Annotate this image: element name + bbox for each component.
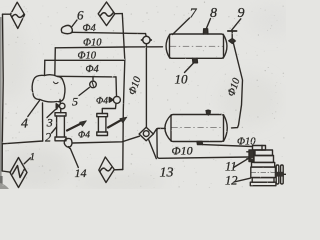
rotameter (bottom-middle diamond)	[99, 157, 115, 183]
wire: drop from phi4 line to valve	[115, 77, 118, 97]
label 7 leader	[173, 18, 190, 35]
svg-text:Φ10: Φ10	[172, 144, 193, 158]
cock 3 (triangle+circle on mixer outlet)	[56, 100, 65, 113]
component numbers	[21, 6, 245, 188]
label 14 leader	[70, 149, 78, 168]
wire: vertical to check valve 13	[145, 47, 147, 127]
valve (phi4 small cock, right group)	[109, 96, 120, 103]
wire: phi4 bus line 4	[58, 75, 117, 78]
flow arrow (right)	[108, 119, 123, 128]
label 3 leader	[47, 109, 57, 118]
wire: phi4 bus line 1	[72, 32, 146, 33]
svg-text:6: 6	[77, 8, 84, 23]
flow arrow (left)	[67, 123, 83, 131]
wire: valve 9 down to lower tank	[232, 44, 243, 128]
wire: top-middle diamond to right vertical	[115, 13, 123, 15]
svg-text:2: 2	[45, 131, 51, 145]
svg-text:13: 13	[160, 166, 174, 181]
label 6 leader	[72, 20, 77, 27]
check valve 13 (small diamond with circle)	[139, 127, 153, 141]
drain blob 14	[64, 138, 72, 147]
compressor 12 (block stack)	[250, 146, 276, 186]
wire: top-left diamond to left bus	[3, 13, 11, 15]
scan left edge strip	[0, 17, 2, 189]
wire: phi10 bus line 3	[45, 59, 125, 61]
wire: phi10 bus line 2 (to tank 7)	[55, 47, 162, 48]
receiver tank 7 (upper)	[166, 34, 227, 58]
label 11 leader	[234, 158, 250, 168]
wire: valve to burette 2'	[102, 103, 116, 113]
svg-text:Φ10: Φ10	[83, 37, 102, 48]
wire: bottom-middle diamond to right vertical	[114, 169, 123, 171]
bottom-left corner smudge	[0, 183, 9, 189]
nozzle 6 (small blob)	[61, 25, 72, 33]
label 4 leader	[28, 101, 40, 117]
svg-text:1: 1	[30, 152, 35, 163]
wire: lower middle line to check valve 13	[73, 136, 140, 143]
wire: drop from phi10 bus to mixer (right)	[54, 48, 57, 75]
burette 2 (left dropper cylinder)	[55, 113, 66, 141]
svg-text:4: 4	[21, 117, 28, 132]
label 9 leader	[232, 19, 241, 30]
paper background	[0, 0, 286, 189]
wire: left block bottom edge	[2, 141, 42, 144]
svg-text:Φ4: Φ4	[78, 131, 90, 141]
rotameter 1 (top-left diamond)	[10, 2, 24, 28]
receiver tank (lower)	[165, 115, 227, 142]
svg-text:7: 7	[190, 7, 198, 22]
gauge 5 (circle under line 4)	[90, 77, 97, 88]
flywheel / coupling	[276, 165, 286, 184]
compressor inlet valve 11	[247, 146, 266, 162]
fitting 10 (bottom nub)	[193, 58, 198, 63]
cock on lower tank top	[206, 110, 211, 115]
wire: drop from phi10 bus to mixer (left)	[44, 60, 46, 75]
svg-text:Φ4: Φ4	[83, 23, 97, 34]
rotameter (top-middle diamond)	[98, 2, 115, 26]
paper mottle	[0, 0, 294, 192]
svg-text:3: 3	[46, 116, 53, 130]
label 13 leader	[149, 140, 157, 159]
wire: lower tank bottom outlet to compressor	[203, 145, 253, 147]
mixer 4 (blob)	[32, 75, 65, 102]
wire: suction loop from lower tank left end	[153, 128, 249, 158]
svg-text:14: 14	[75, 166, 87, 180]
label 12 leader	[234, 178, 250, 182]
svg-text:10: 10	[175, 72, 189, 87]
svg-text:Φ4: Φ4	[86, 64, 100, 75]
paper speckle noise	[2, 2, 284, 189]
svg-text:Φ4: Φ4	[96, 97, 108, 107]
fitting 8 (top nub)	[203, 29, 208, 34]
gauge circle on tank feed line	[142, 34, 152, 47]
label 1 leader	[24, 158, 30, 164]
svg-text:9: 9	[238, 6, 245, 21]
label 10 leader	[185, 63, 194, 73]
svg-text:Φ10: Φ10	[78, 51, 97, 62]
label 5 leader	[79, 88, 89, 96]
wire: to rotameter 1 (bottom-left)	[2, 171, 10, 172]
valve 9 (tank outlet cock)	[228, 31, 237, 44]
burette 2' (right dropper cylinder)	[97, 114, 108, 136]
wire: riser to mixer 4	[42, 103, 44, 141]
svg-text:12: 12	[225, 174, 238, 188]
rotameter (bottom-left diamond, label 1)	[10, 158, 27, 188]
svg-text:11: 11	[225, 160, 237, 174]
label 8 leader	[207, 19, 211, 29]
wire: right vertical of left block	[122, 14, 125, 170]
svg-text:Φ10: Φ10	[237, 137, 256, 148]
label 2 leader	[52, 127, 57, 133]
wire: left vertical main	[2, 14, 3, 171]
lower tank bottom nub	[197, 142, 203, 145]
